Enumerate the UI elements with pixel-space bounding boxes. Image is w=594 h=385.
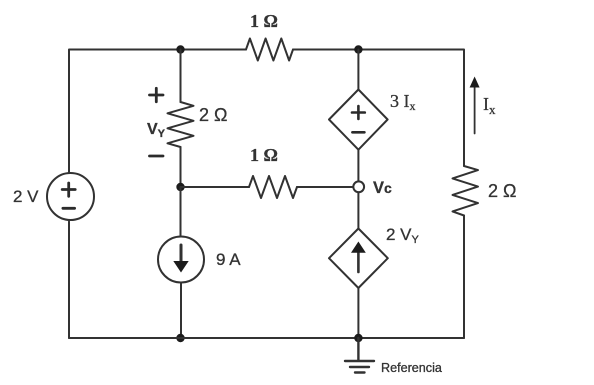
wire V1 to bottom rail (68, 222, 70, 339)
svg-text:Ix: Ix (483, 94, 496, 117)
node A junction top-left (x=180) (176, 45, 184, 53)
svg-text:3 Ix: 3 Ix (390, 91, 416, 113)
node C junction mid-left (176, 183, 184, 191)
wire F1 to bottom rail (357, 288, 359, 338)
dependent voltage source E1 3 Ix diamond (329, 90, 416, 150)
wire mid rail left (181, 186, 250, 188)
wire mid rail right to Vc (297, 186, 353, 188)
svg-text:1 Ω: 1 Ω (250, 145, 278, 165)
svg-text:2 VY: 2 VY (386, 225, 420, 246)
resistor R1 1 Ohm top (246, 11, 293, 61)
wire bottom rail (69, 337, 464, 339)
node B junction top-right (x=358) (354, 45, 362, 53)
wire node B down to dependent source E1 (357, 50, 359, 90)
node E junction bottom-middle (354, 334, 362, 342)
resistor R4 2 Ohm right vertical (453, 166, 517, 216)
svg-text:Vc: Vc (373, 179, 392, 197)
resistor R2 2 Ohm left vertical (168, 102, 228, 147)
label minus sign of Vy (150, 155, 164, 158)
wire top rail left (69, 50, 246, 173)
wire node C to current source I1 (180, 187, 182, 237)
svg-text:2 Ω: 2 Ω (199, 105, 227, 125)
svg-text:2 V: 2 V (13, 187, 39, 206)
label current Ix arrow (470, 77, 496, 134)
current source I1 9 A (158, 237, 241, 283)
wire top rail right (293, 50, 464, 167)
node D junction bottom-left (176, 334, 184, 342)
ground reference symbol (345, 338, 442, 375)
wire R2 to node C (180, 147, 182, 187)
wire from node A down to R2 (180, 50, 182, 103)
label Vy (147, 121, 166, 140)
wire I1 to bottom rail (180, 283, 182, 339)
resistor R3 1 Ohm middle (249, 145, 297, 198)
voltage source V1 2 V (13, 173, 94, 220)
svg-text:1 Ω: 1 Ω (250, 11, 278, 31)
wire E1 to node Vc (357, 150, 359, 182)
label plus sign of Vy (150, 88, 164, 101)
svg-text:Referencia: Referencia (381, 361, 442, 375)
svg-text:VY: VY (147, 121, 166, 140)
wire R4 to bottom rail (463, 216, 465, 339)
wire node Vc down to dependent source F1 (357, 192, 359, 228)
svg-text:2 Ω: 2 Ω (488, 181, 516, 201)
svg-text:9 A: 9 A (216, 250, 241, 269)
dependent current source F1 2 Vy diamond (329, 225, 420, 288)
node Vc open terminal (353, 179, 392, 197)
